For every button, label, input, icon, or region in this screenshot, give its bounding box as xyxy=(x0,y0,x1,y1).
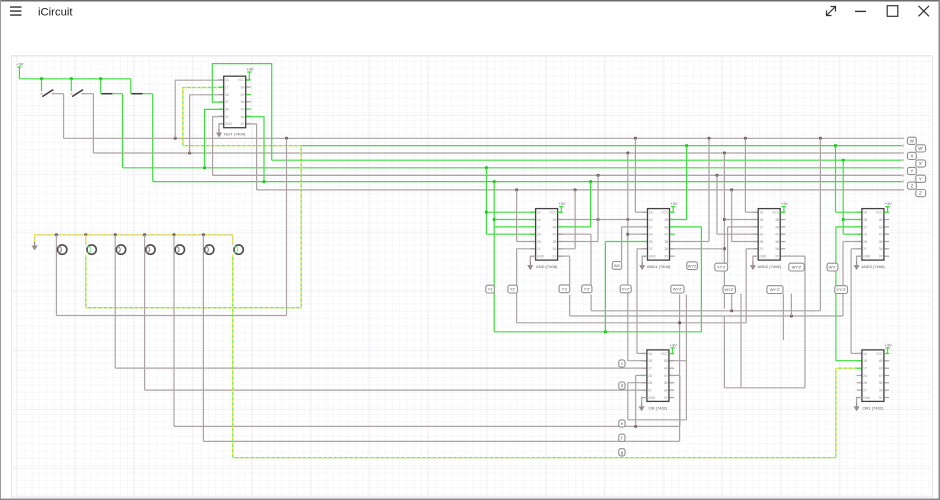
svg-text:1B: 1B xyxy=(759,218,763,222)
close control xyxy=(919,6,930,16)
wire U2 2Y output YZp to tag xyxy=(517,249,536,285)
tag YZ' xyxy=(508,285,518,293)
U4 GND ground xyxy=(750,256,758,270)
wire Y switch drop xyxy=(122,94,124,168)
bus wire Yp xyxy=(213,174,905,177)
top power rail wire xyxy=(19,77,130,80)
svg-text:W': W' xyxy=(918,146,923,151)
tag X'Y'Z' xyxy=(835,286,848,294)
lamp L6 xyxy=(205,245,214,254)
wire cross run W lower xyxy=(591,138,820,312)
wire U2 3Y to tag YpZ xyxy=(558,256,570,285)
wire X switch drop xyxy=(92,94,94,153)
svg-text:AND1 (7408): AND1 (7408) xyxy=(647,264,671,269)
wire Z tap to U2 4A xyxy=(558,182,591,227)
wire Z switch drop xyxy=(152,94,154,182)
fullscreen control xyxy=(827,7,836,16)
U7 GND ground xyxy=(854,398,862,412)
wire U1 3A from Y xyxy=(205,109,224,167)
lamp bus ground symbol xyxy=(32,235,38,251)
svg-text:+3V: +3V xyxy=(16,62,24,67)
svg-text:1B: 1B xyxy=(863,359,867,363)
svg-text:4B: 4B xyxy=(552,218,556,222)
svg-text:3B: 3B xyxy=(775,240,779,244)
svg-text:GND: GND xyxy=(649,255,657,259)
bus wire Y xyxy=(123,166,905,169)
window top border xyxy=(0,0,940,2)
svg-text:XY'Z: XY'Z xyxy=(717,265,726,270)
wire U3 2Y to OR 1A xyxy=(637,249,648,354)
wire U2 1Y output YZ xyxy=(494,226,535,228)
wire U4 1Y to tag XYpZ xyxy=(728,227,759,263)
lamp L1 xyxy=(58,245,67,254)
svg-text:+3V: +3V xyxy=(781,201,789,206)
svg-text:VCC: VCC xyxy=(876,211,883,215)
wire Wp tap to U5 1A xyxy=(836,146,862,213)
svg-text:X'Y'Z': X'Y'Z' xyxy=(836,287,846,292)
lamp common ground bus (selected wire) xyxy=(35,233,233,236)
U6 GND ground xyxy=(639,398,647,412)
wire OR 2B loop xyxy=(628,295,687,420)
svg-text:X': X' xyxy=(919,161,923,166)
svg-text:WY'Z': WY'Z' xyxy=(770,287,780,292)
svg-text:WYZ': WYZ' xyxy=(673,287,683,292)
switch SW3 (closed, net Y) xyxy=(101,79,123,94)
svg-text:WYZ: WYZ xyxy=(688,263,697,268)
bus wire X xyxy=(93,152,904,155)
svg-text:Z: Z xyxy=(911,183,914,188)
tag WY'Z' xyxy=(767,286,783,294)
wire U5 1Y output WpXp to OR1 1B xyxy=(836,227,862,361)
svg-text:iCircuit: iCircuit xyxy=(38,7,73,19)
svg-text:VCC: VCC xyxy=(550,211,557,215)
wire Xp tap to U5 1B/2A xyxy=(842,160,862,234)
wire Yp tap to U4 2A xyxy=(717,175,758,234)
svg-text:NOT (7404): NOT (7404) xyxy=(224,132,246,137)
switch SW4 (closed, net Z) xyxy=(131,79,153,94)
svg-text:GND: GND xyxy=(648,396,656,400)
tag f xyxy=(619,434,625,441)
tag WYZ xyxy=(687,262,698,270)
tag W' xyxy=(916,145,926,152)
tag W'X' xyxy=(827,263,838,271)
tag e xyxy=(619,420,625,427)
svg-text:3B: 3B xyxy=(879,381,883,385)
svg-text:YZ: YZ xyxy=(488,287,494,292)
wire stub vertical filler xyxy=(782,294,784,341)
power source +3V V1 xyxy=(16,62,24,79)
svg-text:WY'Z: WY'Z xyxy=(792,265,802,270)
svg-text:+3V: +3V xyxy=(246,67,254,72)
svg-text:1B: 1B xyxy=(648,359,652,363)
minimize control xyxy=(855,11,866,12)
wire U1 2Y to Xp xyxy=(212,64,271,161)
IC U4 xyxy=(753,209,785,270)
wire U1 1A from W xyxy=(175,80,224,138)
svg-text:2B: 2B xyxy=(863,240,867,244)
svg-text:GND: GND xyxy=(537,255,545,259)
svg-text:XYZ': XYZ' xyxy=(622,287,631,292)
svg-text:4B: 4B xyxy=(775,218,779,222)
svg-text:Y'Z': Y'Z' xyxy=(584,286,591,291)
wire X tap down to U3 1B/2A and OR 1B xyxy=(626,153,647,361)
svg-text:3B: 3B xyxy=(552,240,556,244)
svg-text:+3V: +3V xyxy=(670,342,678,347)
wire Z tap to U2 1B and lower run xyxy=(493,182,536,332)
wire Zp tap to U4 2B xyxy=(732,190,759,242)
bus wire Z xyxy=(153,180,904,183)
svg-text:GND: GND xyxy=(225,122,233,126)
svg-text:W'X': W'X' xyxy=(829,265,837,270)
tag XYZ' xyxy=(620,285,631,293)
maximize control xyxy=(887,6,898,17)
tag g xyxy=(619,449,625,456)
switch SW2 (open, net X) xyxy=(70,79,93,97)
U2 VCC +3V xyxy=(558,201,566,212)
svg-text:OR1 (7432): OR1 (7432) xyxy=(862,405,884,410)
svg-text:Y': Y' xyxy=(919,176,923,181)
IC U1 xyxy=(219,76,251,137)
U4 VCC +3V xyxy=(780,201,788,212)
bus wire Xp xyxy=(272,159,904,162)
svg-text:WYZ': WYZ' xyxy=(725,287,735,292)
lamp L5 xyxy=(175,245,184,254)
wire W switch drop xyxy=(63,94,65,139)
U1 VCC to +3V xyxy=(246,67,254,81)
svg-text:Y'Z: Y'Z xyxy=(562,286,568,291)
wire U4 2Y to cross runs xyxy=(517,242,862,325)
wire Y tap to U2 1A/2A xyxy=(485,168,536,234)
tag Y xyxy=(908,167,917,174)
svg-text:4B: 4B xyxy=(879,359,883,363)
svg-text:AND (7408): AND (7408) xyxy=(536,264,558,269)
wire U1 4A from Z xyxy=(246,117,264,182)
tag W xyxy=(908,137,917,144)
tag WYZ' xyxy=(671,285,684,293)
svg-text:Z': Z' xyxy=(919,191,923,196)
wire Wp tap to U3 4B xyxy=(670,146,687,220)
wire U5 2Y to OR1 1A xyxy=(851,249,862,354)
lamp L2 xyxy=(87,245,96,254)
tag Y'Z xyxy=(559,285,570,293)
U5 VCC +3V xyxy=(884,201,892,212)
svg-text:GND: GND xyxy=(863,255,871,259)
lamp L7 feed wire (net g, selected) xyxy=(233,235,862,458)
tag XY'Z xyxy=(715,263,728,271)
svg-text:+3V: +3V xyxy=(558,201,566,206)
IC U7 xyxy=(857,350,889,411)
wire Yp tap down to X row xyxy=(597,175,599,219)
lamp L1 feed wire (net a=W) xyxy=(56,138,286,315)
svg-text:3B: 3B xyxy=(879,240,883,244)
svg-text:3B: 3B xyxy=(664,240,668,244)
lamp L2 feed wire (net b=Wp, selected) xyxy=(86,146,301,308)
U3 GND ground xyxy=(639,256,647,270)
bus wire Wp (W') xyxy=(301,144,904,147)
lamp L3 xyxy=(116,245,125,254)
svg-text:2B: 2B xyxy=(649,240,653,244)
bus wire Zp xyxy=(257,188,905,191)
lamp L6 feed wire (net f) xyxy=(203,235,679,442)
svg-text:4B: 4B xyxy=(879,218,883,222)
svg-text:2B: 2B xyxy=(759,240,763,244)
wire U1 1Y to Wp (selected) xyxy=(183,88,301,146)
wire U2 4Y to tag YpZp xyxy=(558,234,591,285)
svg-text:GND: GND xyxy=(863,396,871,400)
tag d xyxy=(619,382,625,389)
wire X tap to U3 3A and lower cross xyxy=(670,153,759,309)
wire U1 4Y to Zp xyxy=(246,124,257,190)
wire W tap to U4 1A xyxy=(745,138,758,212)
wire tag WYpZp drop xyxy=(790,294,792,317)
svg-text:2B: 2B xyxy=(537,240,541,244)
wire stub vertical filler2 xyxy=(740,294,742,388)
wire U4 3Y to lower L xyxy=(724,256,805,388)
IC U6 xyxy=(642,350,674,411)
tag Y'Z' xyxy=(582,285,592,293)
svg-text:2B: 2B xyxy=(648,381,652,385)
lamp L4 feed wire (net d) xyxy=(145,235,647,390)
IC U5 xyxy=(857,209,889,270)
wire U3 1Y output WX to tag xyxy=(622,227,648,262)
U5 GND ground xyxy=(854,256,862,270)
svg-text:1B: 1B xyxy=(649,218,653,222)
svg-text:VCC: VCC xyxy=(661,352,668,356)
wire Zp tap to U2 2B xyxy=(517,190,536,242)
svg-text:YZ': YZ' xyxy=(510,287,516,292)
svg-text:3B: 3B xyxy=(664,381,668,385)
svg-text:2B: 2B xyxy=(863,381,867,385)
IC U3 xyxy=(642,209,674,270)
svg-text:Y: Y xyxy=(910,169,913,174)
lamp L7 xyxy=(234,245,243,254)
svg-text:VCC: VCC xyxy=(238,78,245,82)
wire to U2 3B xyxy=(558,220,598,242)
U6 VCC +3V xyxy=(669,342,677,353)
hamburger menu icon xyxy=(10,6,22,16)
svg-text:+3V: +3V xyxy=(885,342,893,347)
U3 VCC +3V xyxy=(670,201,678,212)
tag WYZ' xyxy=(723,286,735,294)
U7 VCC +3V xyxy=(884,342,892,353)
IC U2 xyxy=(530,209,562,270)
wire U1 3Y to Yp xyxy=(213,117,224,176)
tag Z xyxy=(908,182,917,189)
svg-text:+3V: +3V xyxy=(670,201,678,206)
svg-text:VCC: VCC xyxy=(876,352,883,356)
svg-text:VCC: VCC xyxy=(772,211,779,215)
lamp L3 feed wire (net c) xyxy=(115,235,647,368)
svg-text:X: X xyxy=(910,154,913,159)
svg-text:GND: GND xyxy=(759,255,767,259)
tag YZ xyxy=(486,285,495,293)
tag Z' xyxy=(916,190,926,197)
svg-text:OR (7432): OR (7432) xyxy=(649,405,668,410)
bus wire W xyxy=(64,137,905,140)
tag X' xyxy=(916,160,926,167)
wire Zp tap to U2 3A xyxy=(558,190,576,249)
svg-text:4B: 4B xyxy=(664,218,668,222)
wire W tap to U3 3B xyxy=(670,138,710,241)
U2 GND ground xyxy=(527,256,535,270)
wire Z lower run to U3 2B/4A xyxy=(494,227,701,333)
lamp L5 feed wire (net e) xyxy=(174,235,680,428)
U1 GND ground xyxy=(216,124,224,138)
svg-text:WX: WX xyxy=(614,263,621,268)
svg-text:AND2 (7408): AND2 (7408) xyxy=(758,264,782,269)
tag c xyxy=(619,360,625,367)
switch SW1 (open, net W) xyxy=(40,79,63,97)
svg-text:1B: 1B xyxy=(863,218,867,222)
tag WY'Z xyxy=(789,263,804,271)
svg-text:AND3 (7408): AND3 (7408) xyxy=(861,264,885,269)
tag WX xyxy=(612,262,621,270)
svg-text:+3V: +3V xyxy=(885,201,893,206)
wire X net U2 4B to U3 1B xyxy=(558,218,648,221)
lamp L4 xyxy=(146,245,155,254)
svg-text:1B: 1B xyxy=(537,218,541,222)
tag Y' xyxy=(916,175,926,182)
wire W tap to U3 1A xyxy=(635,138,647,212)
svg-text:4B: 4B xyxy=(664,359,668,363)
tag X xyxy=(908,152,917,159)
wire U1 2A from X xyxy=(190,95,224,153)
svg-text:VCC: VCC xyxy=(662,211,669,215)
